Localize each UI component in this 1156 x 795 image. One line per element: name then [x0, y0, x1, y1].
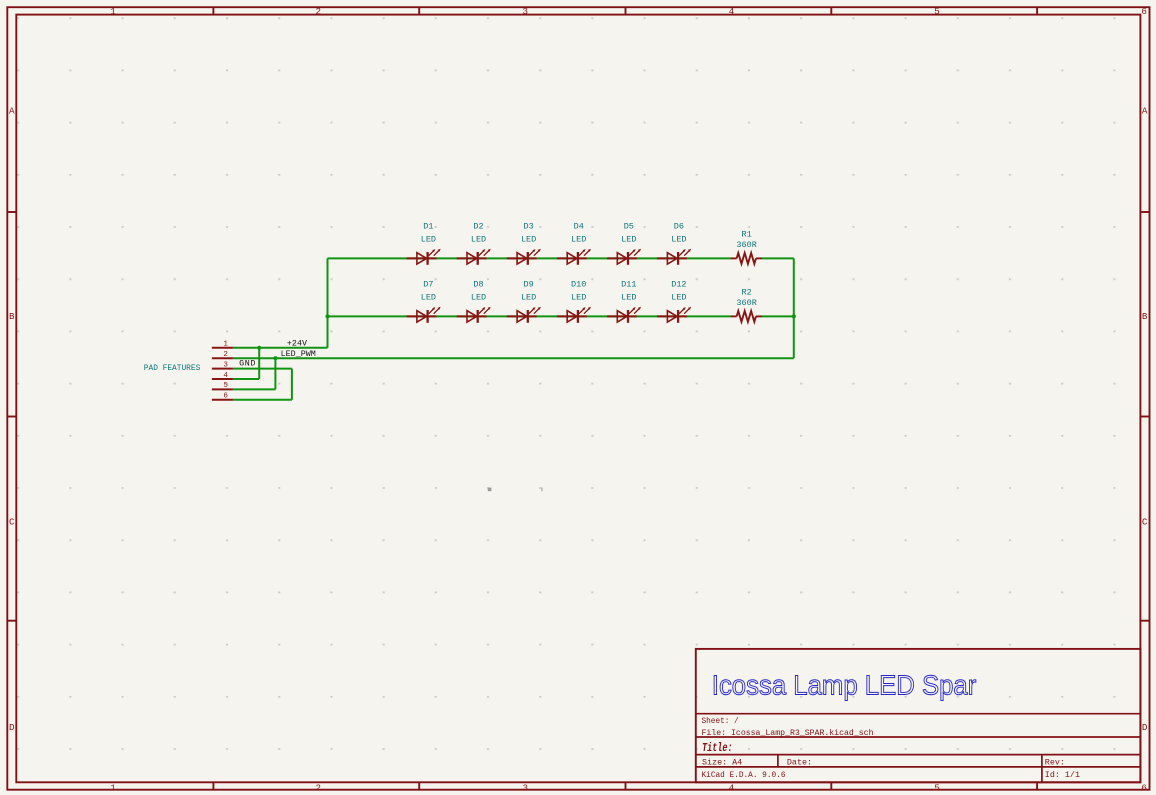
svg-text:Date:: Date:	[787, 757, 812, 767]
svg-text:LED: LED	[421, 234, 436, 244]
svg-text:C: C	[1142, 516, 1148, 527]
svg-text:4: 4	[729, 6, 735, 17]
svg-text:3: 3	[523, 6, 529, 17]
svg-text:1: 1	[110, 782, 116, 793]
svg-text:D5: D5	[624, 222, 634, 232]
svg-text:D: D	[9, 722, 15, 733]
svg-text:LED_PWM: LED_PWM	[281, 349, 316, 359]
svg-text:LED: LED	[471, 292, 486, 302]
svg-text:LED: LED	[471, 234, 486, 244]
svg-text:D9: D9	[523, 280, 533, 290]
svg-text:6: 6	[1141, 782, 1147, 793]
svg-text:2: 2	[316, 6, 322, 17]
svg-text:3: 3	[223, 361, 228, 369]
svg-text:LED: LED	[421, 292, 436, 302]
svg-text:PAD FEATURES: PAD FEATURES	[144, 363, 201, 373]
svg-text:C: C	[9, 516, 15, 527]
svg-text:6: 6	[1141, 6, 1147, 17]
svg-text:D6: D6	[674, 222, 684, 232]
svg-text:LED: LED	[621, 292, 636, 302]
svg-text:Icossa Lamp LED Spar: Icossa Lamp LED Spar	[712, 670, 977, 701]
svg-text:D: D	[1142, 722, 1148, 733]
svg-text:LED: LED	[571, 234, 586, 244]
svg-text:LED: LED	[671, 292, 686, 302]
svg-text:A: A	[9, 106, 15, 117]
svg-text:LED: LED	[571, 292, 586, 302]
svg-text:D2: D2	[473, 222, 483, 232]
svg-text:LED: LED	[621, 234, 636, 244]
svg-text:5: 5	[223, 382, 228, 390]
svg-text:D7: D7	[423, 280, 433, 290]
svg-text:2: 2	[316, 782, 322, 793]
svg-text:Rev:: Rev:	[1045, 757, 1065, 767]
svg-text:3: 3	[523, 782, 529, 793]
svg-text:A: A	[1142, 106, 1148, 117]
svg-text:D3: D3	[523, 222, 533, 232]
svg-text:6: 6	[223, 393, 228, 401]
svg-text:Size: A4: Size: A4	[702, 757, 742, 767]
svg-text:Title:: Title:	[702, 742, 733, 755]
svg-text:B: B	[1142, 311, 1148, 322]
svg-text:+24V: +24V	[287, 339, 307, 349]
svg-text:LED: LED	[521, 292, 536, 302]
svg-text:D12: D12	[671, 280, 686, 290]
svg-text:R1: R1	[741, 229, 751, 239]
svg-text:D4: D4	[574, 222, 584, 232]
svg-text:D8: D8	[473, 280, 483, 290]
svg-text:R2: R2	[741, 287, 751, 297]
svg-text:LED: LED	[671, 234, 686, 244]
svg-text:B: B	[9, 311, 15, 322]
svg-text:File: Icossa_Lamp_R3_SPAR.kica: File: Icossa_Lamp_R3_SPAR.kicad_sch	[702, 728, 874, 738]
svg-text:KiCad E.D.A. 9.0.6: KiCad E.D.A. 9.0.6	[702, 770, 786, 780]
svg-text:D10: D10	[571, 280, 586, 290]
svg-text:Sheet: /: Sheet: /	[702, 716, 739, 726]
svg-text:4: 4	[223, 372, 228, 380]
svg-text:GND: GND	[239, 359, 256, 369]
svg-text:5: 5	[934, 6, 940, 17]
svg-text:360R: 360R	[736, 298, 756, 308]
svg-text:360R: 360R	[736, 240, 756, 250]
svg-text:D11: D11	[621, 280, 636, 290]
svg-text:5: 5	[934, 782, 940, 793]
svg-text:LED: LED	[521, 234, 536, 244]
svg-text:D1: D1	[423, 222, 433, 232]
svg-text:1: 1	[110, 6, 116, 17]
svg-text:2: 2	[223, 351, 228, 359]
svg-text:Id: 1/1: Id: 1/1	[1045, 770, 1080, 780]
svg-text:4: 4	[729, 782, 735, 793]
svg-text:1: 1	[223, 341, 228, 349]
